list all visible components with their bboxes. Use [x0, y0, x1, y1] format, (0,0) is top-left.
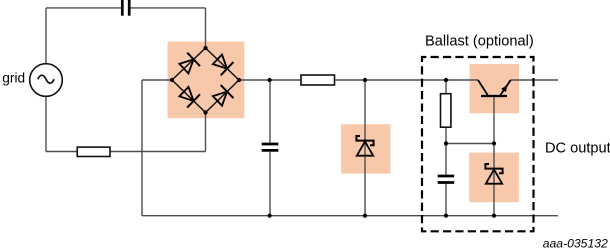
input series capacitor	[122, 0, 129, 16]
wire ballast cap bottom	[445, 184, 447, 216]
bottom rail	[142, 215, 558, 217]
svg-text:aaa-035132: aaa-035132	[543, 236, 608, 250]
node bottom-ballastRC	[444, 214, 448, 218]
wire bridge left stub	[142, 79, 172, 81]
zener diode (shunt regulator)	[356, 136, 373, 156]
input series resistor	[77, 147, 110, 156]
wire filter cap top	[269, 80, 271, 143]
ballast capacitor	[438, 176, 455, 183]
wire bottom-left to resistor	[46, 151, 77, 153]
zener highlight box	[341, 124, 390, 173]
bridge edge left-top	[172, 48, 206, 80]
ballast zener highlight box	[469, 153, 519, 203]
node bottom-ballastzener	[492, 214, 496, 218]
node base-right	[492, 141, 496, 145]
bridge diode bottom-to-right	[213, 85, 234, 106]
wire grid bottom	[45, 96, 47, 151]
bridge diode left-to-top	[179, 53, 200, 74]
wire zener vertical	[364, 80, 366, 216]
node bridge left	[170, 78, 174, 82]
wire top-right	[131, 7, 206, 9]
filter capacitor	[262, 144, 279, 150]
main rail bridge to transistor	[239, 79, 478, 81]
node rail-zener	[363, 78, 367, 82]
series resistor	[301, 75, 335, 85]
node bridge bottom	[203, 110, 207, 114]
node bottom-zener	[363, 214, 367, 218]
main rail transistor to DC output	[511, 79, 558, 81]
ballast resistor	[441, 94, 451, 128]
wire base connector	[446, 143, 494, 145]
wire filter cap bottom	[269, 152, 271, 216]
svg-text:Ballast (optional): Ballast (optional)	[425, 34, 534, 50]
wire ballast resistor top	[445, 80, 447, 94]
bridge diode top-to-right	[213, 55, 234, 76]
ballast zener diode	[485, 164, 502, 184]
ballast dashed box	[422, 57, 534, 231]
bridge highlight	[168, 42, 245, 119]
node rail-filtercap	[268, 78, 272, 82]
node bottom-filtercap	[268, 214, 272, 218]
node bridge right	[237, 78, 241, 82]
wire top down to bridge	[205, 8, 207, 48]
AC source sine	[38, 75, 54, 83]
wire ballast resistor to cap	[445, 127, 447, 174]
bridge edge bottom-right	[206, 80, 240, 113]
node base-left	[444, 141, 448, 145]
bridge edge left-bottom	[172, 80, 206, 113]
wire left vertical to bottom rail	[141, 80, 143, 216]
wire transistor base down	[493, 96, 495, 216]
wire top-left	[46, 7, 121, 9]
node rail-ballast	[444, 78, 448, 82]
bridge edge top-right	[206, 48, 240, 80]
svg-text:DC output: DC output	[545, 140, 610, 156]
node bridge top	[203, 46, 207, 50]
wire up to bridge bottom	[205, 113, 207, 152]
pass transistor	[478, 80, 511, 96]
wire resistor to bridge	[110, 151, 206, 153]
svg-text:grid: grid	[2, 70, 25, 85]
AC source circle	[30, 64, 63, 97]
transistor highlight box	[470, 64, 519, 113]
bridge diode left-to-bottom	[179, 87, 200, 108]
wire grid top	[45, 8, 47, 64]
